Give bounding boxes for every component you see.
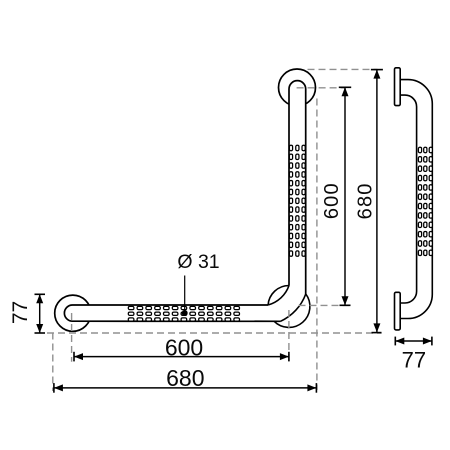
elbow sphere bulge arc <box>274 294 310 328</box>
elbow outer bend arc <box>281 294 306 321</box>
dimension 680 vertical arrow up <box>373 70 380 79</box>
dimension 600 vertical line <box>344 87 346 305</box>
grab bar body fill <box>64 81 305 322</box>
dimension 600 bottom line <box>74 356 289 358</box>
extension dashed line 600 top <box>297 87 346 89</box>
elbow sphere fill <box>268 286 310 328</box>
flange left (wall rosette, front view) <box>55 295 91 331</box>
extension dashed line left flange edge vertical <box>52 333 54 392</box>
extension dashed line 680 top <box>308 68 378 70</box>
dimension 600 bottom arrow right <box>280 353 289 360</box>
dimension 680 bottom arrow right <box>307 384 316 391</box>
dimension 77 left arrow down <box>36 324 43 333</box>
dimension 600 vertical arrow down <box>342 296 349 305</box>
dimension 680 bottom line <box>54 387 317 389</box>
dimension 77 right tick right <box>431 337 433 346</box>
diameter label leader dot <box>182 310 188 316</box>
side view knurl band <box>418 147 432 255</box>
knurl band horizontal tube <box>128 306 239 321</box>
side view tube fill <box>400 80 432 319</box>
svg-text:600: 600 <box>165 334 203 360</box>
dimension 77 right tick left <box>394 337 396 346</box>
dimension 77 right line <box>395 340 432 342</box>
dimension 600 vertical arrow up <box>342 87 349 96</box>
elbow sphere lens arc <box>268 286 289 306</box>
extension dashed line right of flange vertical <box>316 99 318 391</box>
dimension 600 bottom tick left <box>73 352 75 362</box>
dimension 77 right arrow left <box>395 338 404 345</box>
extension dashed line left flange center vertical <box>71 313 73 362</box>
knurl band vertical tube <box>289 145 305 256</box>
dimension 680 bottom arrow left <box>54 384 63 391</box>
dimension 680 vertical line <box>376 70 378 333</box>
grab bar outline top edge and left cap and bottom edge <box>64 305 280 321</box>
side view wall plate bottom <box>395 292 401 330</box>
svg-text:77: 77 <box>9 301 32 324</box>
svg-text:Ø 31: Ø 31 <box>177 251 219 273</box>
diameter label leader line <box>184 276 186 314</box>
dimension 680 vertical tick bottom <box>372 332 382 334</box>
elbow inner bend arc <box>268 286 289 306</box>
svg-text:680: 680 <box>166 365 204 391</box>
dimension 77 left line <box>39 294 41 333</box>
dimension 600 vertical tick bottom <box>340 304 351 306</box>
dimension 77 left tick bottom <box>35 332 46 334</box>
extension dashed line 600 bottom right <box>299 304 352 306</box>
dimension 600 bottom tick right <box>288 352 290 362</box>
dimension 77 left arrow up <box>36 294 43 303</box>
dimension 77 right arrow right <box>423 338 432 345</box>
dimension 680 vertical arrow down <box>373 323 380 332</box>
side view wall plate top <box>395 68 401 106</box>
svg-text:77: 77 <box>402 348 426 373</box>
dimension 600 bottom arrow left <box>74 353 83 360</box>
dimension 77 left tick top <box>35 293 46 295</box>
svg-text:600: 600 <box>321 182 343 219</box>
dimension 680 bottom tick right <box>315 383 317 393</box>
flange top (wall rosette, front view) <box>279 69 316 106</box>
grab bar outline left edge and top cap and right edge <box>289 81 306 294</box>
dimension 680 vertical tick top <box>371 69 383 71</box>
dimension 680 bottom tick left <box>53 383 55 393</box>
dimension 600 vertical tick top <box>339 86 351 88</box>
extension dashed line elbow vertical <box>288 310 290 364</box>
extension dashed line 680 bottom horizontal <box>47 332 382 334</box>
svg-text:680: 680 <box>355 182 377 219</box>
